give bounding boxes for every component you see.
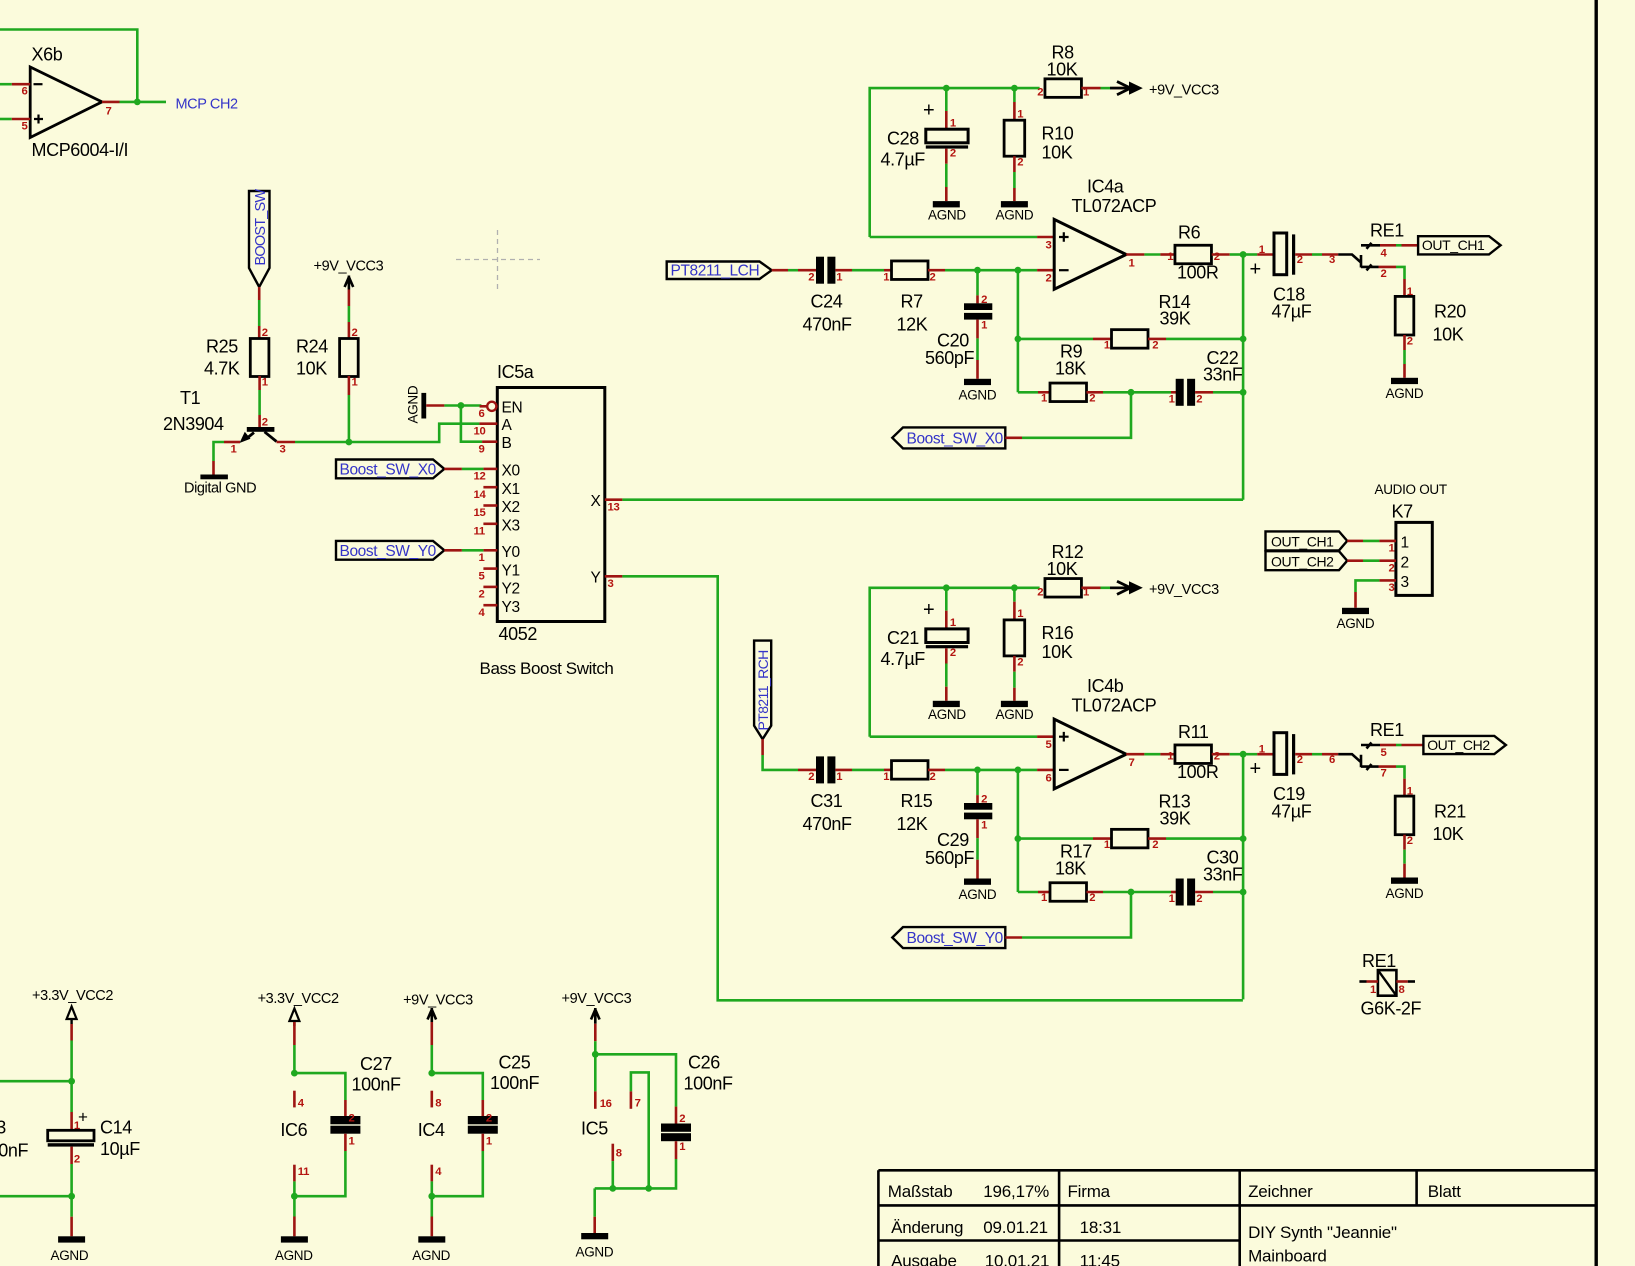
ground AGND at IC5a EN xyxy=(406,385,427,423)
ground AGND at R16 xyxy=(996,701,1034,722)
wire IC5 to AGND xyxy=(593,1188,596,1216)
wire PT8211_LCH to C24 xyxy=(772,269,788,272)
svg-text:1: 1 xyxy=(486,1136,492,1148)
ground AGND at C21 xyxy=(928,701,966,722)
svg-text:1: 1 xyxy=(349,1136,355,1148)
svg-text:11: 11 xyxy=(474,526,485,538)
svg-text:RE1: RE1 xyxy=(1370,220,1404,240)
resistor R13 39K xyxy=(1104,792,1191,852)
svg-text:+: + xyxy=(78,1108,88,1127)
svg-text:10: 10 xyxy=(474,426,486,438)
wire R14 to node xyxy=(1148,338,1166,341)
wire R13 to node xyxy=(1148,837,1166,840)
wire C27 bottom xyxy=(344,1134,347,1151)
svg-text:3: 3 xyxy=(1329,254,1335,266)
svg-text:6: 6 xyxy=(22,86,28,98)
svg-text:Boost_SW_X0: Boost_SW_X0 xyxy=(907,431,1004,448)
svg-text:MCP6004-I/I: MCP6004-I/I xyxy=(32,140,129,160)
title block xyxy=(878,1170,1596,1266)
svg-text:3: 3 xyxy=(280,444,286,456)
wire to R9 xyxy=(1018,391,1038,394)
svg-text:2: 2 xyxy=(1407,336,1413,348)
wire R16 to AGND xyxy=(1013,656,1016,672)
svg-text:4.7µF: 4.7µF xyxy=(881,649,926,669)
svg-text:G6K-2F: G6K-2F xyxy=(1361,999,1422,1019)
svg-text:1: 1 xyxy=(479,552,485,564)
svg-text:14: 14 xyxy=(474,489,487,501)
svg-text:196,17%: 196,17% xyxy=(983,1182,1049,1201)
wire X6b +input xyxy=(0,118,12,121)
junction IC5 top xyxy=(592,1051,599,1058)
svg-text:9: 9 xyxy=(479,444,485,456)
junction R24/collector xyxy=(346,439,353,446)
svg-text:2: 2 xyxy=(1214,751,1220,763)
net flag Boost at R17 xyxy=(892,927,1005,948)
svg-text:Y3: Y3 xyxy=(502,599,520,616)
svg-text:K7: K7 xyxy=(1392,502,1414,522)
svg-text:2: 2 xyxy=(981,794,987,806)
svg-text:1: 1 xyxy=(1167,751,1173,763)
capacitor C20 560pF xyxy=(925,294,992,368)
svg-text:470nF: 470nF xyxy=(803,814,852,834)
wire R20 to AGND xyxy=(1403,335,1406,350)
wire X6b -input xyxy=(0,83,12,86)
pin op-amp out 1 xyxy=(1126,253,1144,256)
wire IC4 to AGND xyxy=(430,1196,433,1216)
pin IC5a.12 X0 xyxy=(474,463,521,483)
net flag PT8211_LCH xyxy=(667,262,772,280)
ground AGND at IC6 xyxy=(275,1236,313,1263)
svg-text:X3: X3 xyxy=(502,517,520,534)
svg-text:10K: 10K xyxy=(1433,324,1464,344)
wire R17 to C30 xyxy=(1087,891,1104,894)
svg-text:RE1: RE1 xyxy=(1370,720,1404,740)
resistor R15 12K xyxy=(883,761,935,834)
wire Y line xyxy=(622,576,1243,1000)
svg-text:PT8211_RCH: PT8211_RCH xyxy=(755,650,771,730)
svg-text:1: 1 xyxy=(1169,394,1175,406)
svg-text:1: 1 xyxy=(231,444,237,456)
svg-text:12K: 12K xyxy=(897,814,928,834)
svg-text:12K: 12K xyxy=(897,314,928,334)
svg-text:X0: X0 xyxy=(502,463,521,480)
svg-text:8: 8 xyxy=(616,1148,622,1160)
wire rail to op-amp +in xyxy=(870,735,1037,738)
svg-text:R6: R6 xyxy=(1178,223,1201,243)
junction feedback tap xyxy=(1015,767,1022,774)
connector K7 AUDIO OUT xyxy=(1375,482,1447,595)
svg-text:3: 3 xyxy=(1046,240,1052,252)
svg-text:Y0: Y0 xyxy=(502,544,521,561)
svg-text:10K: 10K xyxy=(1042,642,1073,662)
wire C19 to relay contact xyxy=(1295,753,1312,756)
origin cross xyxy=(456,230,540,290)
wire C26 bottom xyxy=(675,1141,678,1159)
svg-text:C14: C14 xyxy=(100,1118,132,1138)
resistor R6 100R xyxy=(1167,223,1220,283)
capacitor C21 4.7uF xyxy=(881,599,969,669)
svg-text:X6b: X6b xyxy=(32,45,63,65)
resistor R17 18K xyxy=(1041,841,1095,904)
svg-text:10K: 10K xyxy=(296,359,327,379)
svg-text:R25: R25 xyxy=(206,337,238,357)
wire feedback vertical xyxy=(1017,270,1020,392)
svg-text:+3.3V_VCC2: +3.3V_VCC2 xyxy=(32,988,113,1004)
wire to out flag xyxy=(1396,744,1402,747)
wire T1 collector to IC5a A xyxy=(295,424,479,442)
capacitor C22 33nF xyxy=(1169,348,1243,406)
wire to R17 xyxy=(1018,891,1038,894)
svg-text:2N3904: 2N3904 xyxy=(163,414,224,434)
svg-text:AGND: AGND xyxy=(576,1244,614,1259)
svg-text:1: 1 xyxy=(1167,251,1173,263)
ground AGND at R20 xyxy=(1386,378,1424,401)
resistor R25 4.7K xyxy=(204,337,269,379)
wire AGND to EN xyxy=(444,404,481,407)
svg-text:Änderung: Änderung xyxy=(891,1218,963,1237)
wire rail to C21 xyxy=(945,588,948,611)
svg-text:3: 3 xyxy=(608,578,614,590)
relay contact RE1 xyxy=(1338,720,1404,770)
net flag PT8211_RCH xyxy=(754,641,771,740)
junction output node xyxy=(1240,251,1247,258)
ic IC5 gnd pin 8 xyxy=(611,1144,614,1161)
resistor R11 100R xyxy=(1167,722,1220,782)
wire supply to IC4 xyxy=(430,1022,433,1045)
resistor R20 10K xyxy=(1395,296,1466,344)
svg-text:X1: X1 xyxy=(502,481,520,498)
svg-text:2: 2 xyxy=(981,294,987,306)
svg-text:R11: R11 xyxy=(1178,722,1209,742)
svg-text:C26: C26 xyxy=(688,1053,720,1073)
svg-text:+9V_VCC3: +9V_VCC3 xyxy=(403,992,473,1008)
svg-text:1: 1 xyxy=(1259,244,1265,256)
pin K7.2 xyxy=(1347,559,1363,562)
svg-text:5: 5 xyxy=(1381,747,1387,759)
pin IC5a.14 X1 xyxy=(474,481,520,501)
svg-text:18:31: 18:31 xyxy=(1080,1218,1122,1237)
wire C21 to AGND xyxy=(945,648,948,663)
wire Boost_SW_X0 to X0 xyxy=(444,468,462,471)
svg-text:8: 8 xyxy=(435,1097,441,1109)
svg-text:10K: 10K xyxy=(1047,60,1078,80)
svg-text:C25: C25 xyxy=(499,1053,531,1073)
ground AGND at R10 xyxy=(996,201,1034,222)
pin IC5a.11 X3 xyxy=(474,517,520,537)
svg-text:1: 1 xyxy=(836,271,842,283)
svg-text:4: 4 xyxy=(435,1166,442,1178)
svg-text:Ausgabe: Ausgabe xyxy=(891,1252,957,1266)
svg-text:16: 16 xyxy=(600,1098,612,1110)
svg-text:39K: 39K xyxy=(1160,808,1191,828)
junction C21 rail xyxy=(943,584,950,591)
wire supply rail xyxy=(870,588,1040,737)
pin IC5a.10 A xyxy=(474,417,513,438)
svg-text:560pF: 560pF xyxy=(925,348,974,368)
pin IC5a.4 Y3 xyxy=(479,599,520,619)
net flag OUT_CH1 at K7 xyxy=(1266,531,1348,550)
svg-text:8: 8 xyxy=(1399,984,1405,996)
wire C24 to R7 xyxy=(835,269,852,272)
wire to C20 xyxy=(976,270,979,295)
wire R25 to T1 base xyxy=(258,376,261,390)
junction pin7 loop bottom xyxy=(645,1185,652,1192)
svg-text:Mainboard: Mainboard xyxy=(1248,1247,1327,1266)
svg-text:18K: 18K xyxy=(1055,359,1086,379)
junction C29 tap xyxy=(974,767,981,774)
pin K7.1 xyxy=(1347,540,1363,543)
junction IC4 top xyxy=(428,1070,435,1077)
svg-text:10µF: 10µF xyxy=(100,1139,140,1159)
svg-text:+9V_VCC3: +9V_VCC3 xyxy=(314,259,384,275)
wire X line xyxy=(622,498,1243,501)
svg-text:2: 2 xyxy=(1017,157,1023,169)
svg-text:+9V_VCC3: +9V_VCC3 xyxy=(562,991,632,1007)
wire R10 to AGND xyxy=(1013,156,1016,172)
svg-text:T1: T1 xyxy=(180,388,201,408)
relay coil RE1 G6K-2F xyxy=(1361,951,1422,1019)
svg-text:Y: Y xyxy=(591,570,601,587)
svg-text:2: 2 xyxy=(1196,394,1202,406)
wire to R13 xyxy=(1018,837,1093,840)
svg-text:1: 1 xyxy=(1259,744,1265,756)
svg-text:2: 2 xyxy=(679,1113,685,1125)
pin relay throw 4 xyxy=(1380,244,1396,247)
wire to left edge upper xyxy=(0,1080,72,1083)
junction C20 tap xyxy=(974,267,981,274)
svg-text:470nF: 470nF xyxy=(803,314,852,334)
svg-text:2: 2 xyxy=(486,1113,492,1125)
net flag BOOST_SW xyxy=(249,189,270,287)
supply +9V_VCC3 at IC4 xyxy=(403,992,473,1022)
wire to left edge lower xyxy=(0,1195,72,1198)
junction IC6 top xyxy=(291,1070,298,1077)
svg-text:AGND: AGND xyxy=(406,385,421,423)
svg-text:7: 7 xyxy=(1381,768,1387,780)
svg-text:2: 2 xyxy=(1037,586,1043,598)
wire Boost_SW_Y0 to Y0 xyxy=(444,549,462,552)
wire C14 gnd xyxy=(70,1196,73,1217)
svg-text:DIY Synth "Jeannie": DIY Synth "Jeannie" xyxy=(1248,1223,1397,1242)
ground AGND at R21 xyxy=(1386,878,1424,901)
svg-text:1: 1 xyxy=(950,617,956,629)
wire supply rail xyxy=(870,88,1040,237)
svg-text:AGND: AGND xyxy=(996,208,1034,223)
wire rail to C28 xyxy=(945,88,948,111)
wire rail to R16 xyxy=(1013,588,1016,602)
pin IC5a.15 X2 xyxy=(474,499,520,519)
svg-text:7: 7 xyxy=(1129,757,1135,769)
relay contact RE1 xyxy=(1338,220,1404,270)
junction R10 rail xyxy=(1011,85,1018,92)
wire C20 to AGND xyxy=(976,320,979,339)
svg-text:11:45: 11:45 xyxy=(1080,1252,1120,1266)
capacitor C31 470nF xyxy=(803,756,852,834)
junction EN/B xyxy=(458,402,465,409)
op-amp IC4b TL072ACP xyxy=(1054,676,1157,789)
svg-text:AGND: AGND xyxy=(1386,386,1424,401)
svg-text:IC4b: IC4b xyxy=(1087,676,1124,696)
svg-text:BOOST_SW: BOOST_SW xyxy=(253,189,269,266)
svg-text:12: 12 xyxy=(474,471,486,483)
wire to C29 xyxy=(976,770,979,795)
wire C29 to AGND xyxy=(976,819,979,838)
wire R15 to op-amp -in xyxy=(928,769,945,772)
svg-text:+9V_VCC3: +9V_VCC3 xyxy=(1149,83,1219,99)
svg-text:5: 5 xyxy=(479,570,485,582)
svg-text:Y1: Y1 xyxy=(502,562,520,579)
pin op-amp out 7 xyxy=(1126,753,1144,756)
svg-text:+: + xyxy=(923,599,934,621)
net flag OUT_CH2 at K7 xyxy=(1266,551,1348,570)
pin IC5a.3 Y xyxy=(591,570,623,590)
svg-text:Boost_SW_X0: Boost_SW_X0 xyxy=(340,462,437,479)
svg-text:2: 2 xyxy=(1152,839,1158,851)
svg-text:4.7K: 4.7K xyxy=(204,359,240,379)
pin RE1.8 xyxy=(1396,980,1407,983)
svg-text:Digital GND: Digital GND xyxy=(184,481,256,497)
svg-text:2: 2 xyxy=(479,589,485,601)
svg-text:18K: 18K xyxy=(1055,858,1086,878)
wire rail to op-amp +in xyxy=(870,236,1037,239)
svg-text:1: 1 xyxy=(883,271,889,283)
svg-text:2: 2 xyxy=(1297,254,1303,266)
svg-text:7: 7 xyxy=(106,106,112,118)
svg-text:R16: R16 xyxy=(1042,623,1074,643)
wire relay to R20 xyxy=(1396,267,1405,279)
svg-text:47µF: 47µF xyxy=(1272,302,1312,322)
capacitor C26 100nF xyxy=(661,1053,733,1142)
junction IC6 bottom xyxy=(291,1193,298,1200)
svg-text:1: 1 xyxy=(1169,893,1175,905)
junction feedback tap xyxy=(1015,267,1022,274)
pin op-amp -in 6 xyxy=(1037,769,1054,772)
wire rail to R10 xyxy=(1013,88,1016,102)
svg-text:1: 1 xyxy=(1017,109,1023,121)
supply +9V_VCC3 arrow xyxy=(1110,581,1219,598)
net flag Boost_SW_X0 at IC5a xyxy=(336,460,444,479)
svg-text:OUT_CH2: OUT_CH2 xyxy=(1427,737,1490,753)
wire X6b output xyxy=(120,101,167,104)
resistor R8 10K xyxy=(1037,43,1089,99)
svg-text:7: 7 xyxy=(635,1097,641,1109)
svg-text:OUT_CH1: OUT_CH1 xyxy=(1422,237,1485,253)
svg-text:2: 2 xyxy=(1017,656,1023,668)
svg-text:560pF: 560pF xyxy=(925,848,974,868)
junction X6b output xyxy=(134,99,141,106)
wire C31 to R15 xyxy=(835,769,852,772)
wire supply to IC5 xyxy=(594,1024,597,1041)
svg-text:1: 1 xyxy=(1370,984,1376,996)
capacitor C29 560pF xyxy=(925,794,992,868)
svg-text:2: 2 xyxy=(1196,893,1202,905)
wire IC6 gnd xyxy=(293,1181,296,1196)
svg-text:Bass Boost Switch: Bass Boost Switch xyxy=(480,659,614,678)
wire top branch to C25 xyxy=(432,1073,483,1100)
svg-text:Y2: Y2 xyxy=(502,581,520,598)
net flag OUT_CH1 xyxy=(1418,236,1501,254)
pin AGND stub xyxy=(426,404,444,407)
wire X6b feedback xyxy=(0,30,137,102)
svg-text:2: 2 xyxy=(1037,87,1043,99)
wire T1 emitter to DGND xyxy=(214,442,225,461)
svg-text:5: 5 xyxy=(22,121,28,133)
svg-text:X2: X2 xyxy=(502,499,520,516)
svg-text:4: 4 xyxy=(298,1097,305,1109)
svg-text:R21: R21 xyxy=(1434,801,1466,821)
wire boost flag xyxy=(1005,436,1022,439)
svg-text:1: 1 xyxy=(1017,608,1023,620)
pin IC5a.2 Y2 xyxy=(479,581,520,601)
op-amp IC4a TL072ACP xyxy=(1054,177,1157,290)
svg-text:Boost_SW_Y0: Boost_SW_Y0 xyxy=(340,543,437,560)
svg-text:RE1: RE1 xyxy=(1362,951,1396,971)
pin RE1.1 xyxy=(1359,980,1366,983)
supply +9V_VCC3 at IC5 xyxy=(562,991,632,1024)
svg-text:2: 2 xyxy=(930,271,936,283)
svg-text:X: X xyxy=(591,493,602,510)
wire feedback vertical xyxy=(1017,770,1020,892)
resistor R10 10K xyxy=(1004,120,1074,162)
wire node to C18 xyxy=(1243,253,1257,256)
svg-text:Maßstab: Maßstab xyxy=(888,1182,953,1201)
svg-text:+: + xyxy=(1250,259,1261,281)
supply +9V_VCC3 xyxy=(314,259,384,290)
wire R11 to node xyxy=(1212,753,1230,756)
resistor R16 10K xyxy=(1004,620,1074,662)
junction pin8 bottom xyxy=(609,1185,616,1192)
svg-text:Firma: Firma xyxy=(1068,1182,1111,1201)
svg-text:TL072ACP: TL072ACP xyxy=(1072,196,1157,216)
wire R12 to VCC3 xyxy=(1081,586,1100,589)
svg-text:1: 1 xyxy=(1389,543,1395,555)
svg-text:AGND: AGND xyxy=(412,1248,450,1263)
svg-text:5: 5 xyxy=(1046,739,1052,751)
ic IC4 power pin 8 xyxy=(430,1091,433,1108)
svg-text:2: 2 xyxy=(930,771,936,783)
wire C18 to relay contact xyxy=(1295,253,1312,256)
svg-text:1: 1 xyxy=(836,771,842,783)
ground AGND at K7 xyxy=(1337,608,1375,631)
capacitor C14 10µF xyxy=(48,1108,140,1160)
svg-text:3: 3 xyxy=(1401,574,1409,591)
wire IC6 to AGND xyxy=(293,1196,296,1216)
wire top branch to C27 xyxy=(294,1073,345,1100)
resistor R21 10K xyxy=(1395,796,1466,844)
net flag Boost at R9 xyxy=(892,427,1005,448)
svg-text:AGND: AGND xyxy=(959,387,997,402)
wire output node vertical xyxy=(1242,754,1245,999)
svg-text:1: 1 xyxy=(262,377,268,389)
svg-text:09.01.21: 09.01.21 xyxy=(983,1218,1048,1237)
supply +9V_VCC3 arrow xyxy=(1110,82,1219,99)
ground AGND at C14 xyxy=(51,1236,89,1263)
svg-text:2: 2 xyxy=(1152,340,1158,352)
pin X6b.6 xyxy=(12,83,30,86)
svg-text:1: 1 xyxy=(1041,892,1047,904)
svg-text:IC4a: IC4a xyxy=(1087,177,1125,197)
junction C14 top xyxy=(68,1078,75,1085)
svg-text:2: 2 xyxy=(1389,562,1395,574)
wire R9 to C22 xyxy=(1087,391,1104,394)
svg-text:AGND: AGND xyxy=(1337,616,1375,631)
svg-text:2: 2 xyxy=(1407,835,1413,847)
pin relay throw 5 xyxy=(1380,744,1396,747)
wire C28 to AGND xyxy=(945,149,948,164)
junction IC4 bottom xyxy=(428,1193,435,1200)
svg-text:AGND: AGND xyxy=(275,1248,313,1263)
ic IC6 power pin 4 xyxy=(293,1091,296,1108)
